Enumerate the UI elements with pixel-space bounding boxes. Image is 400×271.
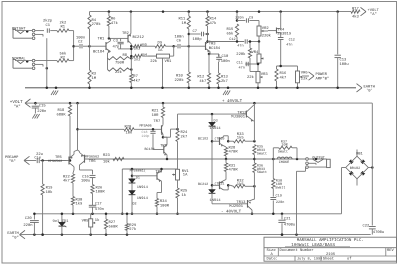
svg-text:EARTH: EARTH [7, 231, 18, 236]
svg-text:470R: 470R [229, 168, 239, 173]
svg-text:750R: 750R [115, 60, 125, 65]
svg-text:220k: 220k [175, 78, 185, 83]
svg-text:TR1: TR1 [98, 37, 106, 42]
svg-text:5Watt: 5Watt [257, 170, 267, 175]
svg-text:C17: C17 [95, 202, 102, 207]
svg-text:10k: 10k [46, 190, 54, 195]
svg-text:27k: 27k [129, 227, 137, 232]
svg-text:1N914: 1N914 [137, 196, 149, 201]
svg-text:100u: 100u [81, 179, 90, 184]
svg-text:1M: 1M [92, 76, 97, 81]
svg-text:Date:: Date: [267, 257, 278, 262]
svg-text:MJ3001: MJ3001 [231, 114, 245, 119]
svg-text:TR6: TR6 [89, 159, 97, 164]
svg-text:C1: C1 [46, 23, 51, 28]
svg-text:BR102: BR102 [350, 166, 361, 171]
svg-text:EARTH: EARTH [364, 84, 375, 89]
svg-text:VR1: VR1 [165, 59, 173, 64]
svg-text:1k: 1k [95, 218, 100, 223]
svg-text:220n: 220n [235, 15, 243, 20]
svg-text:"B": "B" [9, 159, 16, 164]
svg-text:47k: 47k [111, 21, 119, 26]
svg-text:MJ2501: MJ2501 [229, 204, 243, 209]
svg-text:AMP"B": AMP"B" [316, 77, 330, 82]
svg-text:MPSA06: MPSA06 [140, 123, 152, 128]
svg-text:4k7: 4k7 [133, 78, 140, 83]
svg-text:R23: R23 [103, 153, 111, 158]
svg-text:C2: C2 [78, 39, 83, 44]
svg-text:VR6: VR6 [301, 71, 309, 76]
svg-text:47n: 47n [239, 65, 245, 70]
svg-text:MPS6562: MPS6562 [48, 159, 62, 164]
svg-text:1N914: 1N914 [137, 185, 149, 190]
svg-text:220k: 220k [262, 33, 272, 38]
svg-text:1k9: 1k9 [76, 202, 84, 207]
svg-text:470R: 470R [229, 149, 239, 154]
svg-text:4k3: 4k3 [352, 15, 360, 20]
svg-text:C21: C21 [284, 216, 292, 221]
svg-text:C6: C6 [177, 39, 182, 44]
svg-text:"0": "0" [12, 236, 19, 241]
svg-text:C11: C11 [237, 61, 243, 66]
svg-text:- 40VOLT: - 40VOLT [221, 210, 242, 215]
svg-text:470n: 470n [95, 207, 104, 212]
svg-text:C10: C10 [222, 54, 230, 59]
svg-text:22k: 22k [150, 59, 158, 64]
svg-text:100n: 100n [221, 59, 230, 64]
svg-text:4k7: 4k7 [280, 75, 287, 80]
svg-text:D2: D2 [133, 202, 137, 207]
svg-text:47n: 47n [286, 43, 292, 48]
svg-text:R1: R1 [61, 25, 66, 30]
svg-text:220n: 220n [23, 223, 32, 228]
svg-text:5Watt: 5Watt [257, 151, 267, 156]
svg-text:220n: 220n [37, 109, 46, 114]
svg-text:BC184: BC184 [209, 46, 221, 51]
svg-text:22k: 22k [301, 77, 309, 82]
svg-text:22k: 22k [247, 75, 255, 80]
svg-text:PREAMP: PREAMP [5, 155, 19, 160]
svg-text:1k: 1k [182, 193, 187, 198]
svg-text:Sheet: Sheet [323, 257, 334, 262]
svg-text:5Watt: 5Watt [275, 185, 285, 190]
svg-text:C3: C3 [113, 39, 118, 44]
svg-text:BC212: BC212 [198, 182, 208, 187]
svg-text:VR3: VR3 [261, 72, 269, 77]
svg-text:BC182: BC182 [198, 137, 208, 142]
svg-text:+VOLT: +VOLT [10, 100, 23, 105]
svg-text:10k: 10k [103, 160, 111, 165]
svg-text:4k7: 4k7 [199, 79, 206, 84]
svg-text:C12: C12 [229, 37, 235, 42]
svg-text:'0': '0' [366, 89, 373, 94]
svg-text:C9: C9 [249, 15, 253, 20]
svg-text:1M: 1M [182, 21, 187, 26]
svg-text:"A": "A" [370, 12, 377, 17]
svg-text:C15: C15 [39, 103, 47, 108]
svg-text:July 8, 1998: July 8, 1998 [297, 257, 322, 262]
svg-text:BC184: BC184 [93, 50, 105, 55]
svg-text:VR5: VR5 [82, 218, 90, 223]
svg-text:of: of [347, 257, 352, 262]
svg-text:CHOKE: CHOKE [279, 160, 290, 165]
svg-text:270k: 270k [92, 22, 102, 27]
svg-text:1A: 1A [158, 48, 163, 53]
svg-text:"A": "A" [14, 105, 21, 110]
svg-text:REV: REV [387, 248, 395, 253]
svg-text:100p: 100p [193, 37, 203, 42]
svg-text:2k7: 2k7 [181, 134, 188, 139]
svg-text:C22: C22 [363, 223, 371, 228]
svg-text:10k: 10k [126, 130, 134, 135]
svg-text:560R: 560R [109, 224, 119, 229]
svg-text:100u: 100u [340, 62, 349, 67]
svg-text:100R: 100R [96, 189, 106, 194]
svg-text:10R: 10R [152, 113, 160, 118]
svg-text:C19: C19 [276, 194, 282, 199]
svg-text:POWER: POWER [316, 72, 328, 77]
svg-text:65k: 65k [227, 31, 235, 36]
svg-text:1A: 1A [183, 173, 188, 178]
svg-text:2k7: 2k7 [221, 79, 228, 84]
svg-text:4700u: 4700u [284, 222, 295, 227]
svg-text:47k: 47k [210, 21, 218, 26]
svg-text:4700u: 4700u [373, 230, 384, 235]
svg-text:680K: 680K [57, 112, 67, 117]
svg-text:Document Number: Document Number [280, 248, 314, 253]
svg-text:C7: C7 [193, 29, 198, 34]
svg-text:100R: 100R [160, 203, 170, 208]
svg-text:C12: C12 [289, 37, 295, 42]
svg-text:4n5: 4n5 [141, 43, 147, 48]
svg-text:5Watt: 5Watt [278, 149, 288, 154]
svg-text:220n: 220n [276, 200, 284, 205]
svg-text:R17: R17 [352, 6, 359, 11]
svg-text:1N914: 1N914 [210, 198, 222, 203]
svg-text:220p: 220p [142, 134, 150, 138]
svg-text:+ 40VOLT: + 40VOLT [222, 99, 243, 104]
svg-text:4k7: 4k7 [63, 178, 70, 183]
svg-text:220k: 220k [236, 52, 246, 57]
svg-text:47n: 47n [237, 43, 243, 48]
svg-text:BC212: BC212 [133, 35, 145, 40]
svg-text:TR7: TR7 [153, 119, 160, 124]
svg-text:1N914: 1N914 [210, 126, 222, 131]
